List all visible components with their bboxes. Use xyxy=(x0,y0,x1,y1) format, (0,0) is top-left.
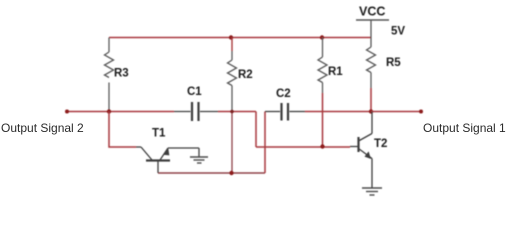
wire R5 lead to output node xyxy=(370,88,372,112)
svg-text:T2: T2 xyxy=(374,138,387,150)
ground near T1 xyxy=(190,148,208,163)
node rail R1 junction xyxy=(320,35,324,39)
wire C1 to corner xyxy=(218,111,256,113)
VCC power symbol xyxy=(356,20,389,47)
wire T2 base run xyxy=(256,146,350,148)
wire corner down to T2 base run xyxy=(255,112,257,148)
transistor T2 xyxy=(350,112,372,189)
wire output signal 1 segment xyxy=(371,111,421,113)
transistor T1 xyxy=(136,147,199,173)
resistor R5 xyxy=(367,47,376,88)
node output junction xyxy=(369,109,373,113)
svg-text:T1: T1 xyxy=(152,128,166,140)
ground below T2 xyxy=(362,188,382,195)
resistor R2 xyxy=(231,38,233,52)
node R1 base junction xyxy=(320,144,324,148)
wire bottom up to C2 xyxy=(264,112,266,174)
svg-text:R2: R2 xyxy=(238,69,253,81)
svg-text:VCC: VCC xyxy=(359,5,385,19)
node rail R2 junction xyxy=(229,35,233,39)
resistor R1 xyxy=(318,38,327,94)
wire R1 lead to T2 base wire xyxy=(322,93,324,147)
wire bottom collector run xyxy=(158,172,265,174)
node output signal 2 end xyxy=(65,110,69,114)
wire R2 lead to bottom xyxy=(231,112,233,174)
svg-text:R3: R3 xyxy=(114,68,129,80)
capacitor C2 xyxy=(265,103,305,121)
capacitor C1 xyxy=(174,102,218,121)
node R2 crossing xyxy=(230,110,234,114)
wire C2 to output node xyxy=(305,111,371,113)
wire top VCC rail xyxy=(109,37,371,39)
svg-text:C1: C1 xyxy=(187,86,202,98)
node R3 mid junction xyxy=(107,109,111,113)
label Output Signal 1 xyxy=(423,121,506,135)
wire T1 base L xyxy=(109,112,136,148)
resistor R3 xyxy=(105,38,114,112)
svg-text:R1: R1 xyxy=(328,66,343,78)
svg-text:R5: R5 xyxy=(386,57,401,69)
node output signal 1 end xyxy=(419,110,423,114)
node bottom junction xyxy=(229,171,233,175)
svg-text:5V: 5V xyxy=(391,26,405,38)
label Output Signal 2 xyxy=(1,121,84,135)
wire output signal 2 segment xyxy=(67,111,174,113)
svg-text:C2: C2 xyxy=(276,88,291,100)
